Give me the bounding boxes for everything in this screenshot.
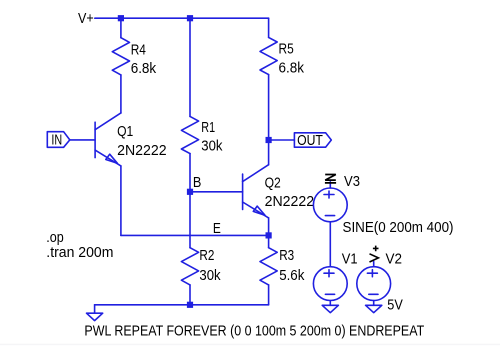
ground under V1 [322, 301, 338, 313]
svg-text:6.8k: 6.8k [279, 60, 305, 76]
wire V3 to V1 [329, 222, 331, 267]
svg-text:SINE(0 200m 400): SINE(0 200m 400) [343, 220, 454, 236]
transistor Q2 (2N2222 NPN) [243, 165, 315, 218]
svg-text:R2: R2 [199, 248, 214, 264]
svg-text:6.8k: 6.8k [131, 61, 157, 77]
resistor R4 [112, 18, 157, 113]
svg-text:5V: 5V [387, 297, 403, 313]
wire Q2 emitter down [268, 218, 270, 236]
svg-text:R3: R3 [279, 248, 294, 264]
resistor R3 [260, 235, 305, 304]
wire V+ rail top [95, 17, 269, 19]
wire IN to Q1 base [70, 139, 95, 141]
svg-text:OUT: OUT [297, 133, 323, 149]
svg-text:V+: V+ [78, 11, 94, 27]
svg-text:R5: R5 [279, 41, 294, 57]
voltage source V2 [357, 267, 391, 301]
svg-text:30k: 30k [199, 268, 221, 284]
resistor R1 [181, 18, 223, 192]
V2 battery glyph [370, 246, 379, 262]
svg-text:V3: V3 [344, 174, 360, 190]
junction E/Q2 emitter [266, 232, 272, 238]
wire OUT [269, 139, 295, 141]
svg-text:V2: V2 [386, 252, 403, 268]
ground under V2 [366, 301, 382, 313]
wire Q2 collector up [268, 140, 270, 165]
resistor R5 [260, 18, 305, 140]
voltage source V1 [313, 267, 347, 301]
svg-text:V1: V1 [342, 252, 358, 268]
voltage source V3 [313, 188, 347, 222]
svg-text:.op: .op [46, 230, 64, 246]
svg-text:E: E [213, 221, 221, 237]
faint window edge line [0, 344, 500, 346]
wire Q1 emitter down [120, 166, 122, 236]
junction V+/R4 [118, 15, 124, 21]
svg-text:5.6k: 5.6k [279, 268, 305, 284]
junction node B [187, 189, 193, 195]
wire bottom rail [95, 304, 269, 306]
junction V+/R1 [187, 15, 193, 21]
svg-text:2N2222: 2N2222 [265, 194, 315, 210]
svg-text:Q1: Q1 [117, 124, 133, 140]
svg-text:IN: IN [51, 132, 62, 148]
wire node B to Q2 base [190, 191, 243, 193]
svg-text:R4: R4 [131, 42, 146, 58]
svg-text:30k: 30k [201, 138, 223, 154]
wire node E horizontal [121, 234, 269, 236]
transistor Q1 (2N2222 NPN) [95, 113, 167, 166]
junction OUT tap [266, 137, 272, 143]
port flag IN [47, 132, 70, 149]
V3 sine glyph [325, 175, 336, 183]
V2 top stub [373, 262, 375, 267]
svg-text:R1: R1 [201, 120, 215, 136]
svg-text:PWL REPEAT FOREVER (0 0 100m 5: PWL REPEAT FOREVER (0 0 100m 5 200m 0) E… [84, 324, 424, 340]
V3 top stub [329, 182, 331, 188]
junction R2/bottom [187, 302, 193, 308]
svg-text:Q2: Q2 [265, 175, 281, 191]
ground bottom-left [87, 305, 103, 321]
resistor R2 [181, 192, 221, 305]
port flag OUT [294, 133, 331, 149]
svg-text:.tran 200m: .tran 200m [46, 245, 113, 261]
svg-text:2N2222: 2N2222 [117, 143, 167, 159]
svg-text:B: B [193, 175, 202, 191]
